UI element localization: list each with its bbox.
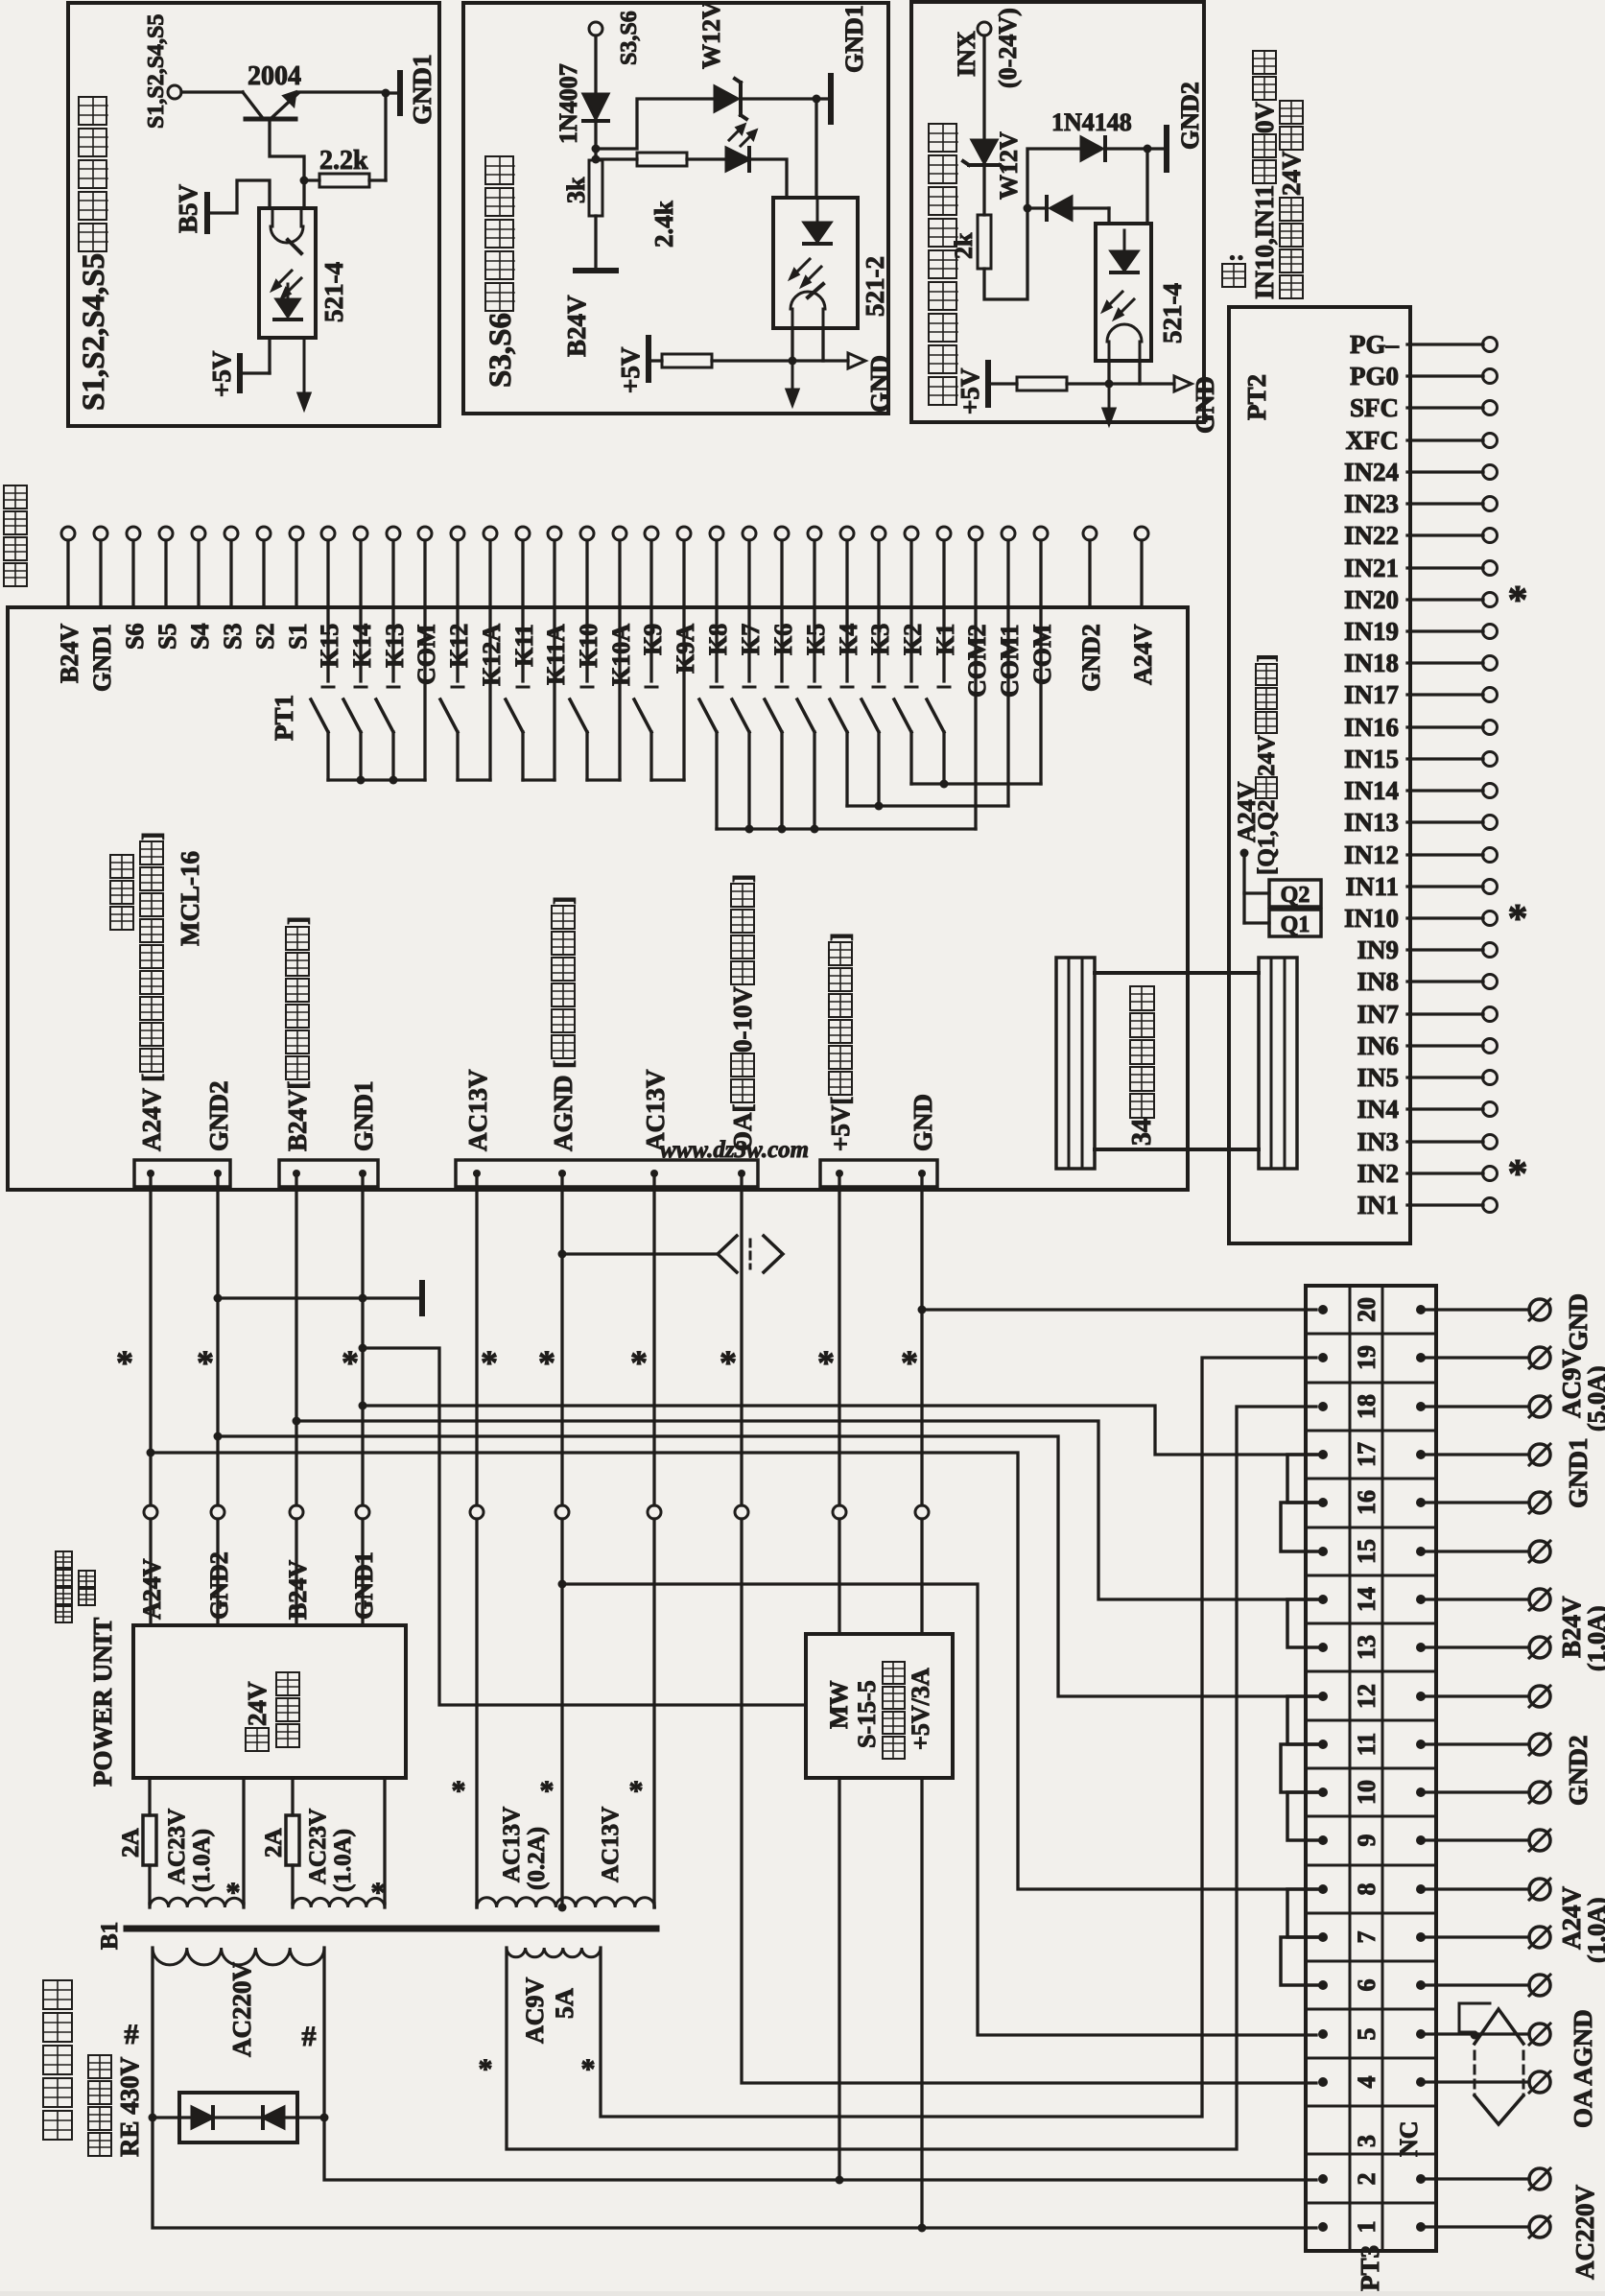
ground GND open arrow box3 bbox=[1174, 376, 1192, 391]
wire bus K4-K3 to COM1 bbox=[847, 804, 1008, 807]
wire rail B24V to PT3 row14 bbox=[296, 1421, 1316, 1599]
wire terminal to diode bbox=[594, 36, 597, 94]
wire bus K2-K1 to COM bbox=[911, 782, 1041, 785]
screw terminal row 19 bbox=[1421, 1356, 1529, 1359]
svg-text:IN6: IN6 bbox=[1357, 1031, 1399, 1060]
svg-text:IN8: IN8 bbox=[1357, 967, 1399, 996]
svg-text:NC: NC bbox=[1395, 2120, 1423, 2157]
svg-text:IN16: IN16 bbox=[1344, 713, 1399, 742]
opto U2 light arrows bbox=[792, 259, 810, 276]
screw terminal row 16 bbox=[1421, 1501, 1529, 1503]
transformer winding AC13V centre-tapped bbox=[477, 1898, 654, 1907]
svg-text:8: 8 bbox=[1353, 1883, 1381, 1896]
PT3 row separator above 19 bbox=[1306, 1333, 1436, 1336]
label power transformer bbox=[43, 2111, 72, 2140]
opto U3 pins down bbox=[1107, 361, 1110, 384]
svg-text:GND2: GND2 bbox=[204, 1081, 233, 1152]
note header bbox=[1222, 264, 1245, 287]
wire diode to GND2 bbox=[1105, 147, 1163, 150]
svg-text:]: ] bbox=[826, 933, 855, 941]
svg-text:RE 430V: RE 430V bbox=[115, 2056, 144, 2157]
svg-text:MW: MW bbox=[825, 1680, 853, 1729]
optocoupler U1 521-4 body bbox=[259, 208, 316, 338]
terminal S3 bbox=[224, 527, 238, 540]
PT3 row separator above 10 bbox=[1306, 1767, 1436, 1770]
wire INX down bbox=[982, 36, 985, 140]
terminal COM bbox=[418, 527, 432, 540]
svg-text:S3,S6: S3,S6 bbox=[484, 313, 518, 388]
svg-text:(0.2A): (0.2A) bbox=[524, 1827, 550, 1890]
label RE 430V bbox=[88, 2133, 111, 2156]
terminal K10 bbox=[580, 527, 594, 540]
svg-text:11: 11 bbox=[1353, 1733, 1381, 1757]
svg-text:POWER UNIT: POWER UNIT bbox=[88, 1618, 117, 1787]
svg-text:AC13V: AC13V bbox=[463, 1069, 492, 1151]
svg-text:AC13V: AC13V bbox=[499, 1807, 525, 1882]
optocoupler U2 521-2 body bbox=[773, 198, 858, 328]
wire MW AC input L bbox=[838, 1778, 840, 2180]
wire board drop x=586 bbox=[560, 1173, 563, 1505]
svg-text:10: 10 bbox=[1353, 1780, 1381, 1805]
svg-text:Q2: Q2 bbox=[1281, 883, 1310, 908]
svg-text:PT1: PT1 bbox=[270, 695, 298, 741]
svg-text:S1: S1 bbox=[284, 624, 312, 650]
svg-text::: : bbox=[1219, 253, 1248, 262]
PT3 contact dots row 8 bbox=[1318, 1884, 1328, 1894]
svg-text:AC9V: AC9V bbox=[521, 1976, 549, 2044]
PT3 contact dots row 19 bbox=[1318, 1353, 1328, 1362]
svg-text:1N4148: 1N4148 bbox=[1051, 108, 1132, 136]
ground GND2 bar box3 bbox=[1164, 128, 1169, 170]
jumper rows 12-11 bbox=[1287, 1696, 1323, 1744]
svg-text:1N4007: 1N4007 bbox=[555, 63, 582, 144]
switch contact at x=950 bbox=[909, 607, 912, 681]
svg-text:IN3: IN3 bbox=[1357, 1127, 1399, 1156]
PT3 row separator above 6 bbox=[1306, 1960, 1436, 1963]
svg-text:IN2: IN2 bbox=[1357, 1159, 1399, 1188]
svg-text:GND2: GND2 bbox=[1077, 624, 1105, 692]
transformer winding AC23V #1 bbox=[148, 1904, 151, 1907]
shielded cable symbol bbox=[1475, 2009, 1523, 2044]
svg-text:24V: 24V bbox=[1277, 151, 1306, 196]
node opto3-rail bbox=[1105, 380, 1114, 389]
junction break circle x=497 bbox=[470, 1505, 484, 1519]
wire GND2 lower bbox=[216, 1519, 219, 1625]
svg-text:AC220V: AC220V bbox=[227, 1962, 256, 2057]
svg-text:]: ] bbox=[549, 896, 578, 905]
PT3 contact dots row 4 bbox=[1318, 2077, 1328, 2087]
flat cable top link wire bbox=[1095, 971, 1259, 975]
PT3 row separator above 15 bbox=[1306, 1527, 1436, 1529]
switch contact at x=815 bbox=[780, 607, 783, 681]
svg-text:S4: S4 bbox=[186, 624, 214, 650]
wire AC13V-1 lower bbox=[475, 1519, 478, 1907]
junction break circle x=773 bbox=[735, 1505, 748, 1519]
jumper rows 7-6 bbox=[1281, 1937, 1323, 1985]
fuse 2A #2 bbox=[291, 1778, 294, 1815]
wire LED to opto bbox=[749, 159, 787, 198]
jumper rows 17-16 bbox=[1287, 1455, 1323, 1503]
junction break circle x=875 bbox=[833, 1505, 846, 1519]
switch contact at x=849 bbox=[813, 607, 815, 681]
wire board drop x=309 bbox=[295, 1173, 297, 1505]
terminal K11A bbox=[548, 527, 561, 540]
svg-text:IN4: IN4 bbox=[1357, 1095, 1399, 1124]
relay Q1 bbox=[1269, 910, 1321, 936]
junction break circle x=378 bbox=[356, 1505, 369, 1519]
junction break circle x=227 bbox=[211, 1505, 224, 1519]
svg-text:2k: 2k bbox=[950, 232, 978, 259]
PT3 contact dots row 17 bbox=[1318, 1450, 1328, 1459]
wire board drop x=773 bbox=[740, 1173, 743, 1505]
optocoupler U3 521-4 body bbox=[1096, 224, 1151, 361]
jumper rows 10-9 bbox=[1287, 1792, 1323, 1840]
wire rail GND1 to PT3 row17 bbox=[363, 1406, 1316, 1455]
transistor Q 2004 base bar bbox=[246, 117, 295, 122]
PT3 contact dots row 6 bbox=[1318, 1980, 1328, 1990]
terminal COM bbox=[1034, 527, 1048, 540]
switch contact at x=781 bbox=[747, 607, 750, 681]
resistor 2.2k bbox=[304, 178, 319, 181]
screw terminal row 8 bbox=[1421, 1887, 1529, 1890]
screw terminal row 4 bbox=[1421, 2080, 1529, 2083]
svg-text:IN15: IN15 bbox=[1344, 745, 1399, 773]
power +5V bar bbox=[237, 356, 243, 391]
svg-text:*: * bbox=[629, 1775, 644, 1807]
power B5V bar bbox=[204, 195, 210, 231]
svg-text:W12V: W12V bbox=[697, 1, 725, 69]
svg-text:*: * bbox=[479, 2053, 493, 2085]
screw terminal row 1 bbox=[1421, 2225, 1529, 2228]
wire 3k to B24V bar bbox=[594, 216, 597, 271]
svg-text:20: 20 bbox=[1353, 1297, 1381, 1322]
svg-text:IN14: IN14 bbox=[1344, 776, 1399, 805]
connector +5V/GND bbox=[820, 1160, 937, 1187]
screw terminal row 2 bbox=[1421, 2177, 1529, 2180]
svg-text:PT3: PT3 bbox=[1356, 2245, 1384, 2291]
opto U2 pins to rail bbox=[791, 328, 793, 361]
opto U1 pin to +5V bbox=[268, 338, 271, 373]
junction break circle x=586 bbox=[555, 1505, 569, 1519]
svg-text:INX: INX bbox=[953, 31, 980, 77]
svg-text:B5V: B5V bbox=[174, 183, 202, 233]
screw terminal row 9 bbox=[1421, 1838, 1529, 1841]
wire A24V to relays bbox=[1242, 853, 1245, 923]
wire S input to transistor base bbox=[181, 90, 243, 93]
svg-text:B24V: B24V bbox=[562, 295, 591, 357]
svg-text:GND1: GND1 bbox=[88, 624, 116, 692]
svg-text:IN13: IN13 bbox=[1344, 808, 1399, 837]
switch contact at x=984 bbox=[942, 607, 945, 681]
svg-text:*: * bbox=[901, 1343, 918, 1382]
svg-text:3k: 3k bbox=[562, 177, 590, 203]
PT3 contact dots row 12 bbox=[1318, 1692, 1328, 1701]
wire board drop x=682 bbox=[652, 1173, 655, 1505]
connector B24V/GND1 bbox=[279, 1160, 378, 1187]
terminal B24V bbox=[61, 527, 75, 540]
connector analog outputs bbox=[456, 1160, 758, 1187]
svg-text:IN1: IN1 bbox=[1357, 1191, 1399, 1219]
svg-text:AC220V: AC220V bbox=[1570, 2185, 1599, 2280]
opto U2 LED bbox=[804, 223, 831, 242]
diode 1N4007 bbox=[583, 94, 608, 119]
terminal S5 bbox=[159, 527, 173, 540]
screw terminal row 18 bbox=[1421, 1405, 1529, 1408]
opto U1 light arrows bbox=[274, 271, 292, 288]
left diode to opto bbox=[1027, 206, 1047, 209]
svg-text:17: 17 bbox=[1353, 1442, 1381, 1467]
wire GND2 node to opto bbox=[1145, 149, 1148, 224]
transformer core B1 bbox=[127, 1926, 656, 1932]
svg-text:SFC: SFC bbox=[1350, 393, 1399, 422]
terminal K7 bbox=[743, 527, 756, 540]
resistor 2k bbox=[978, 215, 991, 269]
label terminal strip bbox=[4, 563, 27, 586]
svg-text:+5V: +5V bbox=[207, 350, 236, 397]
terminal K12 bbox=[451, 527, 464, 540]
wire AC9V to PT3 row18 bbox=[507, 1407, 1316, 2149]
svg-text:#: # bbox=[302, 2021, 317, 2052]
svg-text:*: * bbox=[481, 1343, 498, 1382]
wire COM2 down bbox=[974, 607, 977, 829]
terminal A24V bbox=[1135, 527, 1148, 540]
junction break circle x=157 bbox=[144, 1505, 157, 1519]
svg-text:34: 34 bbox=[1127, 1119, 1157, 1146]
subcircuit box S1,S2,S4,S5 bbox=[68, 3, 439, 426]
wire pair bus 612-646 bbox=[587, 778, 620, 781]
fuse 2A #1 bbox=[148, 1778, 151, 1815]
wire 2k to riser bbox=[984, 149, 1081, 299]
wire board drop x=497 bbox=[475, 1173, 478, 1505]
PT3 row separator above 17 bbox=[1306, 1430, 1436, 1432]
svg-text:S3: S3 bbox=[219, 624, 247, 650]
svg-text:A24V: A24V bbox=[1129, 624, 1157, 685]
jumper rows 14-13 bbox=[1287, 1599, 1323, 1647]
svg-text:16: 16 bbox=[1353, 1490, 1381, 1515]
svg-text:IN10: IN10 bbox=[1344, 904, 1399, 933]
PT3 contact dots row 9 bbox=[1318, 1835, 1328, 1845]
screw terminal row 11 bbox=[1421, 1742, 1529, 1745]
wire COM1 down bbox=[1006, 607, 1009, 806]
terminal K13 bbox=[387, 527, 400, 540]
node GND1 bbox=[382, 89, 390, 98]
svg-text:9: 9 bbox=[1353, 1834, 1381, 1847]
wire resistor to GND1 bbox=[384, 93, 387, 180]
svg-text:7: 7 bbox=[1353, 1931, 1381, 1944]
node GND2 box3 bbox=[1144, 145, 1152, 154]
svg-text:B1: B1 bbox=[97, 1922, 123, 1950]
svg-text:]: ] bbox=[137, 832, 166, 840]
wire board drop x=227 bbox=[216, 1173, 219, 1505]
transformer winding AC23V #2 bbox=[291, 1904, 294, 1907]
svg-text:*: * bbox=[342, 1343, 359, 1382]
svg-text:*: * bbox=[538, 1343, 555, 1382]
svg-text:B24V: B24V bbox=[284, 1560, 312, 1620]
svg-text:*: * bbox=[817, 1343, 835, 1382]
svg-text:]: ] bbox=[728, 874, 757, 883]
terminal K2 bbox=[905, 527, 918, 540]
svg-text:(1.0A): (1.0A) bbox=[330, 1829, 356, 1892]
resistor on +5V rail bbox=[650, 359, 662, 362]
ground bar GND2/GND1 bbox=[218, 1296, 418, 1299]
wire AC13V-2 lower bbox=[652, 1519, 655, 1907]
opto U3 LED bbox=[1111, 251, 1138, 271]
svg-text:1: 1 bbox=[1353, 2221, 1381, 2234]
wire AC9V to PT3 row19 bbox=[601, 1358, 1316, 2117]
terminal S3,S6 bbox=[589, 22, 602, 36]
svg-text:Q1: Q1 bbox=[1281, 912, 1310, 937]
power B24V bar bbox=[576, 268, 616, 273]
PT3 row separator above 9 bbox=[1306, 1815, 1436, 1818]
svg-text:IN7: IN7 bbox=[1357, 1000, 1399, 1029]
wire board drop x=157 bbox=[149, 1173, 152, 1505]
svg-text:0-10V: 0-10V bbox=[728, 986, 757, 1053]
svg-text:+5V/3A: +5V/3A bbox=[907, 1668, 934, 1750]
svg-text:GND1: GND1 bbox=[350, 1551, 378, 1620]
screw terminal row 10 bbox=[1421, 1790, 1529, 1793]
svg-text:13: 13 bbox=[1353, 1635, 1381, 1660]
svg-text:AC23V: AC23V bbox=[164, 1809, 190, 1884]
wire GND1 lower bbox=[361, 1519, 364, 1625]
wire MW AC input N bbox=[920, 1778, 923, 2228]
jumper rows 11-10 bbox=[1281, 1744, 1323, 1792]
junction break circle x=682 bbox=[648, 1505, 661, 1519]
svg-text:(5.0A): (5.0A) bbox=[1583, 1365, 1605, 1432]
PT3 row separator above 11 bbox=[1306, 1719, 1436, 1722]
svg-text:AC13V: AC13V bbox=[598, 1807, 624, 1882]
svg-text:6: 6 bbox=[1353, 1979, 1381, 1992]
terminal K6 bbox=[775, 527, 789, 540]
terminal GND2 bbox=[1083, 527, 1097, 540]
svg-text:+5V: +5V bbox=[956, 367, 984, 414]
svg-text:2004: 2004 bbox=[248, 61, 301, 91]
cable marker on AGND bbox=[562, 1252, 717, 1255]
opto U1 LED bbox=[276, 299, 299, 317]
PT3 contact dots row 11 bbox=[1318, 1740, 1328, 1749]
svg-text:W12V: W12V bbox=[995, 131, 1023, 200]
terminal K5 bbox=[808, 527, 821, 540]
terminal K3 bbox=[872, 527, 885, 540]
svg-text:*: * bbox=[630, 1343, 648, 1382]
terminal K15 bbox=[321, 527, 335, 540]
terminal S4 bbox=[192, 527, 205, 540]
svg-text:B24V[: B24V[ bbox=[283, 1080, 312, 1151]
svg-text:521-4: 521-4 bbox=[1158, 283, 1187, 343]
svg-text:2A: 2A bbox=[118, 1828, 144, 1858]
svg-text:(1.0A): (1.0A) bbox=[1583, 1605, 1605, 1671]
diode 1N4148 bbox=[1081, 137, 1102, 160]
opto U1 output lead arrow bbox=[303, 338, 306, 391]
wire +5V lower bbox=[838, 1519, 840, 1634]
svg-text:18: 18 bbox=[1353, 1394, 1381, 1419]
wire AGND lower bbox=[560, 1519, 563, 1907]
switch contact at x=883 bbox=[845, 607, 848, 681]
svg-text:OA AGND: OA AGND bbox=[1569, 2009, 1597, 2128]
svg-text:IN21: IN21 bbox=[1344, 554, 1399, 582]
terminal K14 bbox=[354, 527, 367, 540]
screw terminal row 7 bbox=[1421, 1935, 1529, 1938]
svg-text:S5: S5 bbox=[153, 624, 181, 650]
wire A24V lower bbox=[149, 1519, 152, 1625]
svg-text:*: * bbox=[226, 1877, 241, 1908]
wire bus K15-K13 to COM bbox=[328, 778, 425, 781]
svg-text:AC9V: AC9V bbox=[1557, 1349, 1586, 1418]
screw terminal row 5 bbox=[1421, 2032, 1529, 2035]
transformer primary AC220V bbox=[153, 1948, 324, 1965]
resistor 2.4k bbox=[596, 157, 637, 160]
PT3 contact dots row 15 bbox=[1318, 1547, 1328, 1556]
switch contact at x=679 bbox=[649, 607, 652, 681]
label input signal circuit title bbox=[929, 377, 956, 405]
node GND1 box2 bbox=[813, 95, 821, 104]
terminal S input bbox=[168, 85, 181, 99]
svg-text:MCL-16: MCL-16 bbox=[176, 851, 204, 946]
svg-text:GND: GND bbox=[909, 1094, 937, 1151]
terminal K8 bbox=[710, 527, 723, 540]
opto U3 phototransistor bbox=[1107, 324, 1142, 361]
svg-text:#: # bbox=[125, 2019, 139, 2050]
PT3 row separator above 1 bbox=[1306, 2202, 1436, 2205]
terminal S2 bbox=[257, 527, 271, 540]
flat cable left bar bbox=[1056, 958, 1095, 1169]
svg-text:IN10,IN11: IN10,IN11 bbox=[1250, 185, 1279, 299]
svg-text:*: * bbox=[452, 1775, 466, 1807]
PT3 row separator above 3 bbox=[1306, 2105, 1436, 2108]
svg-text:www.dz3w.com: www.dz3w.com bbox=[660, 1137, 809, 1163]
terminal K4 bbox=[840, 527, 854, 540]
svg-text:2.2k: 2.2k bbox=[319, 146, 368, 176]
screw terminal row 20 bbox=[1421, 1308, 1529, 1311]
jumper rows 8-7 bbox=[1287, 1889, 1323, 1937]
switch contact at x=477 bbox=[456, 607, 459, 681]
svg-text:A24V: A24V bbox=[138, 1558, 166, 1620]
wire winding1 right leg bbox=[242, 1778, 245, 1904]
svg-text:GND1: GND1 bbox=[408, 55, 437, 126]
svg-text:(0-24V): (0-24V) bbox=[994, 8, 1022, 88]
PT3 row separator above 18 bbox=[1306, 1382, 1436, 1385]
svg-text:S1,S2,S4,S5: S1,S2,S4,S5 bbox=[77, 253, 111, 411]
svg-text:GND: GND bbox=[865, 355, 894, 413]
switching supply MW S-15-5 box bbox=[806, 1634, 953, 1778]
terminal K9A bbox=[677, 527, 691, 540]
PT3 row separator above 7 bbox=[1306, 1912, 1436, 1915]
svg-text:S6: S6 bbox=[121, 624, 149, 650]
terminal K9 bbox=[645, 527, 658, 540]
screw terminal row 13 bbox=[1421, 1645, 1529, 1648]
wire bus K8-K5 to COM2 bbox=[717, 827, 976, 830]
terminal COM1 bbox=[1002, 527, 1015, 540]
terminal K12A bbox=[484, 527, 497, 540]
svg-text:3: 3 bbox=[1353, 2135, 1381, 2147]
wire winding2 right leg bbox=[383, 1778, 386, 1904]
svg-text:GND1: GND1 bbox=[349, 1081, 378, 1152]
terminal S1 bbox=[290, 527, 303, 540]
svg-text:GND1: GND1 bbox=[1564, 1438, 1593, 1509]
PT3 row separator above 2 bbox=[1306, 2153, 1436, 2156]
wire zener to GND1 bbox=[741, 97, 816, 100]
svg-text:*: * bbox=[1508, 1152, 1528, 1196]
resistor on +5V rail box3 bbox=[990, 382, 1017, 385]
wire board drop x=378 bbox=[361, 1173, 364, 1505]
svg-text:24V: 24V bbox=[1254, 735, 1280, 776]
svg-text:GND1: GND1 bbox=[840, 5, 868, 73]
switch contact at x=342 bbox=[326, 607, 329, 681]
transistor arrow bbox=[284, 92, 295, 106]
LED arrows bbox=[729, 127, 743, 140]
wire node up to zener W12V bbox=[596, 99, 715, 149]
svg-text:*: * bbox=[720, 1343, 737, 1382]
wire pair bus 477-511 bbox=[458, 778, 490, 781]
